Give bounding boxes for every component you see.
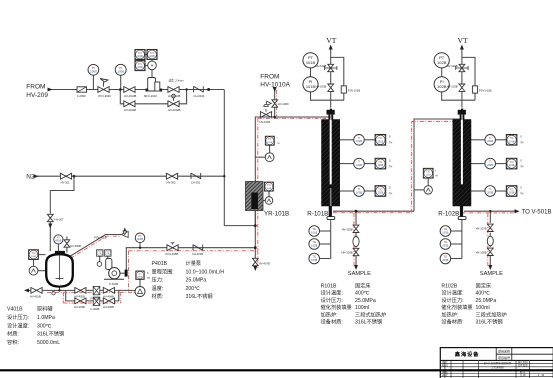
svg-text:计量泵: 计量泵 bbox=[186, 259, 202, 267]
svg-text:PSV-101B: PSV-101B bbox=[348, 89, 361, 93]
svg-text:TE: TE bbox=[312, 255, 316, 259]
svg-text:1.0MPa: 1.0MPa bbox=[37, 315, 55, 321]
svg-text:TI: TI bbox=[489, 187, 492, 191]
svg-text:催化剂装填量: 催化剂装填量 bbox=[441, 303, 472, 311]
svg-text:HV-2013B: HV-2013B bbox=[168, 94, 180, 98]
svg-text:TH: TH bbox=[277, 143, 280, 145]
svg-text:设计温度:: 设计温度: bbox=[7, 321, 29, 329]
svg-text:CH-2040: CH-2040 bbox=[194, 94, 205, 98]
svg-text:TE: TE bbox=[444, 240, 448, 244]
svg-text:TE: TE bbox=[312, 240, 316, 244]
svg-text:TI: TI bbox=[358, 187, 361, 191]
svg-text:F-402B: F-402B bbox=[91, 307, 100, 311]
svg-text:P-401B: P-401B bbox=[109, 282, 118, 286]
svg-text:TO V-501B: TO V-501B bbox=[522, 208, 552, 215]
svg-text:400℃: 400℃ bbox=[355, 291, 370, 297]
svg-text:设备材质:: 设备材质: bbox=[321, 318, 343, 326]
svg-text:316L不锈钢: 316L不锈钢 bbox=[37, 330, 64, 338]
svg-text:HV-404B: HV-404B bbox=[103, 294, 114, 298]
svg-text:102B: 102B bbox=[356, 163, 362, 167]
svg-text:102B: 102B bbox=[437, 60, 447, 65]
svg-text:25.0MPa: 25.0MPa bbox=[186, 278, 207, 284]
svg-text:TH: TH bbox=[389, 165, 392, 168]
svg-text:400℃: 400℃ bbox=[476, 291, 491, 297]
svg-text:加热炉:: 加热炉: bbox=[441, 310, 458, 318]
svg-text:2009: 2009 bbox=[90, 70, 97, 74]
svg-text:HV-301: HV-301 bbox=[61, 180, 70, 184]
svg-text:25.0MPa: 25.0MPa bbox=[476, 298, 497, 304]
svg-text:TE: TE bbox=[312, 227, 316, 231]
svg-text:三段式加热炉: 三段式加热炉 bbox=[476, 310, 507, 318]
svg-text:HV-102B: HV-102B bbox=[316, 64, 327, 68]
svg-text:固定床: 固定床 bbox=[355, 282, 371, 290]
svg-text:R102B: R102B bbox=[441, 284, 457, 290]
svg-text:SAMPLE: SAMPLE bbox=[480, 271, 503, 277]
svg-text:文件类型: 文件类型 bbox=[518, 363, 529, 367]
svg-text:HH-106B: HH-106B bbox=[341, 251, 352, 255]
svg-text:HV-407B: HV-407B bbox=[259, 262, 270, 266]
svg-text:VT: VT bbox=[458, 36, 468, 45]
svg-text:HV-102B: HV-102B bbox=[447, 64, 458, 68]
svg-text:2008: 2008 bbox=[117, 70, 124, 74]
svg-text:HV-103B: HV-103B bbox=[447, 85, 458, 89]
svg-text:101B: 101B bbox=[306, 60, 316, 65]
svg-text:R-102B: R-102B bbox=[438, 210, 459, 217]
svg-text:10.0~100.0mL/H: 10.0~100.0mL/H bbox=[186, 269, 225, 275]
svg-text:PCV-405B: PCV-405B bbox=[166, 252, 179, 256]
svg-text:PSV-401B: PSV-401B bbox=[94, 236, 107, 240]
svg-text:贵州大加氢酯化试验装置: 贵州大加氢酯化试验装置 bbox=[483, 361, 511, 365]
svg-text:203B: 203B bbox=[487, 190, 493, 194]
svg-text:项目编号: 项目编号 bbox=[498, 355, 510, 360]
svg-text:TE: TE bbox=[444, 255, 448, 259]
svg-text:催化剂装填量: 催化剂装填量 bbox=[321, 303, 352, 311]
svg-text:HV-2012B: HV-2012B bbox=[168, 108, 180, 112]
svg-text:HV-405B: HV-405B bbox=[103, 305, 114, 309]
svg-text:101B: 101B bbox=[356, 139, 362, 143]
svg-text:HV-2013B: HV-2013B bbox=[124, 94, 136, 98]
svg-text:CH-302: CH-302 bbox=[191, 180, 201, 184]
svg-text:材质:: 材质: bbox=[7, 330, 19, 338]
svg-text:HV-1009: HV-1009 bbox=[278, 102, 289, 106]
svg-text:FROM: FROM bbox=[26, 84, 45, 91]
svg-text:TH: TH bbox=[520, 193, 523, 196]
svg-text:设计阶段: 设计阶段 bbox=[518, 360, 529, 364]
svg-text:V401B: V401B bbox=[7, 307, 23, 313]
svg-text:PCV-2020: PCV-2020 bbox=[99, 94, 112, 98]
svg-text:R101B: R101B bbox=[321, 284, 337, 290]
svg-text:1 : 10: 1 : 10 bbox=[538, 374, 545, 377]
svg-text:200℃: 200℃ bbox=[186, 286, 201, 292]
svg-text:HV-101B: HV-101B bbox=[260, 120, 271, 124]
svg-text:102B: 102B bbox=[437, 84, 447, 89]
svg-text:5000.0mL: 5000.0mL bbox=[37, 340, 60, 346]
svg-text:设备材质:: 设备材质: bbox=[441, 318, 463, 326]
svg-text:工艺流程图: 工艺流程图 bbox=[491, 365, 504, 369]
svg-text:401B: 401B bbox=[55, 240, 61, 243]
svg-text:材质:: 材质: bbox=[152, 292, 164, 300]
svg-text:设计压力:: 设计压力: bbox=[441, 296, 463, 304]
svg-text:HV-107B: HV-107B bbox=[476, 227, 487, 231]
svg-text:201B: 201B bbox=[487, 139, 493, 143]
svg-text:HV-105B: HV-105B bbox=[342, 228, 353, 232]
svg-text:设计温度:: 设计温度: bbox=[321, 289, 343, 297]
svg-text:TI: TI bbox=[358, 136, 361, 140]
svg-text:201B: 201B bbox=[442, 230, 448, 234]
svg-text:100ml: 100ml bbox=[476, 305, 490, 311]
svg-text:量程范围:: 量程范围: bbox=[152, 267, 174, 275]
svg-text:校 对: 校 对 bbox=[442, 363, 448, 367]
svg-text:HV-401B: HV-401B bbox=[30, 294, 41, 298]
svg-text:316L不锈钢: 316L不锈钢 bbox=[476, 318, 503, 326]
svg-text:HV-2011B: HV-2011B bbox=[124, 108, 136, 112]
svg-text:300℃: 300℃ bbox=[37, 323, 52, 329]
svg-text:固定床: 固定床 bbox=[476, 282, 492, 290]
svg-text:原料罐: 原料罐 bbox=[37, 305, 53, 313]
svg-text:鑫海设备: 鑫海设备 bbox=[454, 350, 479, 358]
svg-text:HV-108B: HV-108B bbox=[476, 251, 487, 255]
svg-text:FROM: FROM bbox=[260, 73, 279, 80]
svg-text:202B: 202B bbox=[442, 243, 448, 247]
svg-text:102B: 102B bbox=[311, 243, 317, 247]
svg-text:容积:: 容积: bbox=[7, 338, 19, 346]
svg-text:HV-300: HV-300 bbox=[167, 180, 176, 184]
svg-text:25.0MPa: 25.0MPa bbox=[355, 298, 376, 304]
svg-text:项目名称: 项目名称 bbox=[498, 348, 510, 353]
svg-text:审 定: 审 定 bbox=[442, 373, 448, 377]
svg-text:设计温度:: 设计温度: bbox=[441, 289, 463, 297]
svg-text:101B: 101B bbox=[306, 84, 316, 89]
svg-text:103B: 103B bbox=[356, 190, 362, 194]
svg-text:TI: TI bbox=[358, 160, 361, 164]
svg-text:HV-406B: HV-406B bbox=[70, 244, 81, 248]
svg-text:HV-1010A: HV-1010A bbox=[260, 82, 290, 89]
svg-text:压力:: 压力: bbox=[152, 276, 164, 284]
svg-text:SAMPLE: SAMPLE bbox=[348, 271, 371, 277]
svg-text:202B: 202B bbox=[487, 163, 493, 167]
svg-text:HV-307: HV-307 bbox=[55, 218, 64, 222]
svg-text:比 例: 比 例 bbox=[520, 373, 526, 377]
svg-text:F-401B: F-401B bbox=[91, 297, 100, 301]
svg-text:三段式加热炉: 三段式加热炉 bbox=[355, 310, 386, 318]
svg-text:P401B: P401B bbox=[152, 261, 168, 267]
svg-text:HV-402B: HV-402B bbox=[74, 294, 85, 298]
svg-text:温度:: 温度: bbox=[152, 284, 164, 292]
svg-text:滤芯: 2.4mm: 滤芯: 2.4mm bbox=[169, 79, 185, 83]
svg-text:加热炉:: 加热炉: bbox=[321, 310, 338, 318]
svg-text:PSV-102B: PSV-102B bbox=[479, 89, 492, 93]
svg-text:N2: N2 bbox=[26, 174, 35, 181]
svg-text:TH: TH bbox=[520, 165, 523, 168]
svg-text:TI: TI bbox=[489, 160, 492, 164]
svg-text:TH: TH bbox=[389, 193, 392, 196]
svg-text:203B: 203B bbox=[442, 258, 448, 262]
svg-text:F-2030: F-2030 bbox=[77, 94, 86, 98]
svg-text:TH: TH bbox=[520, 142, 523, 145]
svg-text:TH: TH bbox=[389, 142, 392, 145]
svg-text:HV-403B: HV-403B bbox=[74, 305, 85, 309]
svg-text:401B: 401B bbox=[137, 237, 143, 241]
svg-text:CH-401B: CH-401B bbox=[192, 252, 203, 256]
svg-text:TI: TI bbox=[489, 136, 492, 140]
svg-text:设计压力:: 设计压力: bbox=[7, 313, 29, 321]
svg-text:MFC-2010: MFC-2010 bbox=[144, 94, 157, 98]
svg-text:TH: TH bbox=[147, 277, 150, 280]
svg-text:HV-103B: HV-103B bbox=[316, 85, 327, 89]
svg-text:YR-101B: YR-101B bbox=[264, 210, 289, 217]
svg-text:HV-209: HV-209 bbox=[26, 92, 48, 99]
svg-text:R-101B: R-101B bbox=[307, 210, 328, 217]
svg-text:VT: VT bbox=[326, 36, 336, 45]
svg-text:TH: TH bbox=[435, 176, 438, 178]
svg-text:100ml: 100ml bbox=[355, 305, 369, 311]
svg-text:101B: 101B bbox=[311, 230, 317, 234]
svg-text:103B: 103B bbox=[311, 258, 317, 262]
svg-text:316L不锈钢: 316L不锈钢 bbox=[355, 318, 382, 326]
svg-text:316L不锈钢: 316L不锈钢 bbox=[186, 292, 213, 300]
svg-text:TE: TE bbox=[444, 227, 448, 231]
svg-text:设计压力:: 设计压力: bbox=[321, 296, 343, 304]
